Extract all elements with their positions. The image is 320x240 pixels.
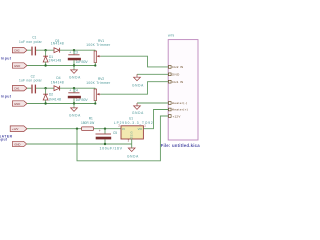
wire +12V branch down-right-up to sheet pin: [77, 116, 168, 161]
wire CH2 label to C1: [27, 49, 31, 51]
svg-text:GND: GND: [14, 102, 20, 106]
junction RV1 on rail: [94, 64, 96, 66]
value 1N4148 (D2): [48, 98, 61, 102]
svg-text:GNDA: GNDA: [132, 111, 144, 115]
sheet file label: [161, 143, 201, 148]
svg-text:Heater(+): Heater(+): [172, 108, 188, 112]
svg-text:100uF/16V: 100uF/16V: [100, 147, 123, 151]
svg-text:C4: C4: [74, 88, 78, 92]
sheet pin Heater(-): [168, 101, 187, 105]
wire RV1 wiper to sheet pin CH2 IN: [100, 56, 168, 67]
label D3: [55, 39, 59, 43]
wire C1 to node A: [36, 49, 54, 51]
capacitor C4 polarized: [68, 88, 81, 103]
svg-text:C5: C5: [113, 131, 117, 135]
global label GND (ch1): [12, 63, 27, 68]
resistor R1: [82, 127, 94, 131]
value 180R 1W (R1): [81, 121, 94, 125]
svg-text:t Input: t Input: [0, 94, 12, 98]
wire RV2 wiper to sheet pin CH1 IN: [100, 82, 168, 95]
label C5: [113, 131, 117, 135]
svg-text:GNDA: GNDA: [69, 114, 81, 118]
sheet pin CH1 IN: [168, 80, 183, 84]
svg-text:180R 1W: 180R 1W: [81, 121, 94, 125]
svg-text:Heater(-): Heater(-): [172, 101, 188, 105]
capacitor C2: [32, 85, 35, 94]
power symbol GNDA (ch1 rail): [69, 66, 81, 80]
capacitor C3 polarized: [68, 50, 81, 65]
wire C2 to node C: [36, 87, 54, 89]
power symbol GNDA (U1 GND): [127, 148, 139, 158]
label R1: [89, 117, 93, 121]
svg-text:D2: D2: [49, 92, 53, 96]
diode D2 (shunt to gnd): [43, 88, 48, 103]
svg-text:1N4148: 1N4148: [51, 42, 64, 46]
value 1N4148 (D4): [51, 81, 64, 85]
junction C3/GNDA on rail: [73, 64, 75, 66]
svg-text:1N4148: 1N4148: [48, 98, 61, 102]
svg-text:t Input: t Input: [0, 56, 12, 60]
text note Ch2 input: [0, 56, 12, 60]
svg-text:1N4148: 1N4148: [49, 58, 62, 62]
wire GND pin ch1: [137, 73, 168, 75]
svg-text:GND: GND: [14, 142, 20, 146]
value 100K Trimmer (RV2): [86, 81, 111, 85]
wire D3 to RV1: [60, 49, 96, 51]
node A junction: [44, 49, 46, 51]
value 100K Trimmer (RV1): [86, 43, 111, 47]
trimmer RV1: [94, 50, 100, 65]
sheet pin GND (top): [168, 73, 180, 77]
svg-text:VI: VI: [122, 127, 125, 131]
sheet name WT9: [168, 34, 175, 38]
global label GND (ch2): [12, 101, 27, 106]
svg-text:GNDA: GNDA: [132, 83, 144, 87]
capacitor C1: [32, 47, 35, 56]
junction C5 bottom: [104, 143, 106, 145]
pin 2 label (U1 VI): [118, 123, 120, 127]
junction C5 top: [104, 128, 106, 130]
value 1uF non polar (C2): [19, 78, 43, 82]
sheet U2 (hierarchical block): [168, 40, 198, 140]
junction D1 on rail: [44, 64, 46, 66]
svg-text:1uF non polar: 1uF non polar: [19, 40, 43, 44]
diode D3 (series): [54, 48, 60, 53]
svg-text:1uF/50V: 1uF/50V: [76, 60, 89, 64]
value 100uF/16V (C5): [100, 147, 123, 151]
svg-text:1uF non polar: 1uF non polar: [19, 78, 43, 82]
svg-text:WT9: WT9: [168, 34, 175, 38]
svg-text:+12V: +12V: [12, 127, 19, 131]
node C junction: [44, 87, 46, 89]
svg-text:+: +: [69, 88, 71, 92]
label RV1: [98, 39, 104, 43]
wire R1 to U1 VI: [94, 128, 122, 130]
label D1: [49, 55, 53, 59]
node B junction (C3 top): [73, 49, 75, 51]
junction +12V branch: [76, 128, 78, 130]
sheet pin +12V: [168, 114, 180, 118]
svg-text:GND: GND: [14, 64, 20, 68]
svg-text:nput: nput: [0, 138, 8, 142]
wire gnd rail ch1: [27, 65, 95, 67]
power symbol GNDA (GND pin ch1): [132, 74, 144, 87]
node D junction (C4 top): [73, 87, 75, 89]
junction RV2 on rail: [94, 102, 96, 104]
sheet pin Heater(+): [168, 108, 188, 112]
svg-text:LP2950-3.3_TO92: LP2950-3.3_TO92: [114, 121, 154, 125]
svg-text:CH1 IN: CH1 IN: [172, 80, 184, 84]
junction C4/GNDA on rail: [73, 102, 75, 104]
power symbol GNDA (ch2 rail): [69, 104, 81, 118]
wire Heater(-) pin: [137, 102, 168, 104]
pin 3 label (U1 GND): [128, 138, 130, 142]
svg-text:+: +: [69, 50, 71, 54]
svg-text:VO: VO: [138, 127, 143, 131]
value 1N4148 (D1): [49, 58, 62, 62]
global label CH1 (second input): [12, 86, 27, 91]
regulator U1: [121, 126, 143, 140]
diode D1 (shunt to gnd): [43, 50, 48, 65]
global label CH2 (top input): [12, 48, 27, 53]
capacitor C5 polarized: [96, 129, 112, 144]
label C1: [32, 35, 36, 39]
svg-text:D4: D4: [56, 76, 60, 80]
svg-text:CH2 IN: CH2 IN: [172, 65, 184, 69]
svg-text:U1: U1: [129, 116, 133, 120]
svg-text:GND: GND: [172, 73, 180, 77]
label C3: [74, 50, 78, 54]
text note Input (heater): [0, 138, 8, 142]
svg-text:C1: C1: [32, 35, 36, 39]
junction D2 on rail: [44, 102, 46, 104]
power symbol GNDA (Heater- pin): [132, 103, 144, 115]
svg-text:+: +: [99, 129, 101, 133]
value LP2950-3.3_TO92 (U1): [114, 121, 154, 125]
label C2: [31, 75, 35, 79]
svg-text:+12V: +12V: [173, 114, 181, 118]
global label GND (bottom): [13, 141, 27, 146]
wire gnd bottom rail: [27, 143, 132, 145]
label C4: [74, 88, 78, 92]
value 1uF/50V (C3): [76, 60, 89, 64]
svg-text:100K Trimmer: 100K Trimmer: [86, 81, 111, 85]
value 1N4148 (D3): [51, 42, 64, 46]
wire +12V label to R1: [27, 128, 82, 130]
global label +12V: [10, 126, 27, 132]
label D2: [49, 92, 53, 96]
wire CH1 label to C2: [27, 87, 31, 89]
svg-text:GNDA: GNDA: [127, 154, 139, 158]
value 1uF/50V (C4): [76, 98, 89, 102]
wire D4 to RV2: [60, 87, 96, 89]
wire U1 GND pin down: [131, 139, 133, 148]
text note HEATER: [0, 134, 13, 138]
trimmer RV2: [94, 88, 100, 103]
pin 1 label (U1 VO): [144, 123, 146, 127]
wire U1 VO to Heater(+) pin: [143, 110, 168, 129]
diode D4 (series): [54, 86, 60, 91]
svg-text:File: untitled.kica: File: untitled.kica: [161, 143, 200, 148]
svg-text:1N4148: 1N4148: [51, 81, 64, 85]
svg-text:CH1: CH1: [14, 87, 20, 91]
svg-text:1uF/50V: 1uF/50V: [76, 98, 89, 102]
svg-text:100K Trimmer: 100K Trimmer: [86, 43, 111, 47]
label D4: [56, 76, 60, 80]
value 1uF non polar (C1): [19, 40, 43, 44]
svg-text:C3: C3: [74, 50, 78, 54]
sheet pin CH2 IN: [168, 65, 183, 69]
label RV2: [98, 77, 104, 81]
svg-text:GNDA: GNDA: [69, 76, 81, 80]
text note Ch1 input: [0, 94, 12, 98]
label U1: [129, 116, 133, 120]
svg-text:CH2: CH2: [14, 49, 20, 53]
wire gnd rail ch2: [27, 103, 95, 105]
